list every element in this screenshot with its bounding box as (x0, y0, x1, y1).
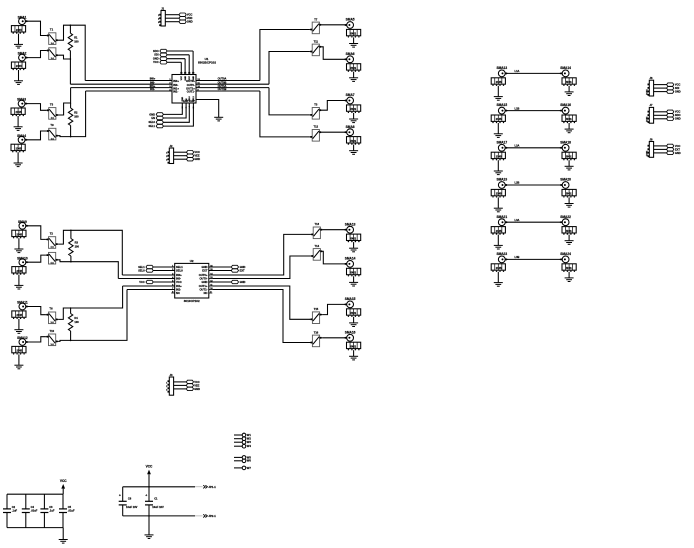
svg-text:NC: NC (204, 291, 208, 295)
connector SMA15 (491, 103, 507, 137)
net flag GND (J3) (186, 387, 200, 391)
wire T16 to SMA16 (322, 337, 346, 339)
svg-text:IN0+: IN0+ (176, 273, 182, 277)
svg-text:GND: GND (193, 76, 195, 81)
svg-text:CON4: CON4 (645, 150, 648, 156)
transformer T9 (46, 123, 58, 140)
wire T14 to SMA14 (323, 251, 347, 264)
wire J2 pin1 (174, 151, 187, 153)
ground (power input) (145, 534, 154, 536)
connector SMA16 (mid) (344, 330, 360, 360)
wire bus U2 IN0+ (122, 274, 174, 276)
connector SMA23 (491, 252, 507, 286)
svg-text:GND: GND (185, 76, 187, 81)
svg-text:R2: R2 (74, 111, 78, 115)
net flag VCC (U1 top) (153, 60, 181, 74)
net flag SDI (154, 53, 189, 75)
wire J2 pin2 (174, 155, 187, 157)
svg-text:EXT: EXT (240, 268, 245, 272)
connector SMA5 (344, 18, 360, 47)
svg-text:OUT0-: OUT0- (199, 276, 207, 280)
svg-text:W7: W7 (247, 466, 252, 470)
wire OUT1B riser to T12 (260, 91, 310, 137)
test point W3 (234, 440, 251, 444)
ground (cap bank) (59, 528, 68, 544)
svg-text:L1A: L1A (515, 69, 520, 73)
net flag VCC (J3) (186, 380, 200, 384)
wire T7 to SMA5 (322, 24, 347, 26)
svg-text:GND: GND (149, 112, 155, 116)
svg-text:T2: T2 (50, 232, 54, 236)
header J6 (645, 76, 653, 96)
wire bus IN1- to U1 (86, 90, 172, 92)
net flag GND (U1 top) (153, 57, 185, 75)
test point W7 (234, 466, 251, 470)
wire J7 pin1 (654, 111, 667, 113)
power VCC (cap bank) (60, 479, 67, 494)
svg-text:SMA14: SMA14 (345, 257, 356, 261)
svg-text:IN0-: IN0- (173, 83, 178, 87)
inductor L1B wire (505, 106, 562, 110)
capacitor C1 10uF 16V (145, 487, 164, 516)
connector SMA11 (12, 301, 28, 334)
net flag GND (U2 right 1) (209, 265, 246, 269)
wire J6 pin2 (654, 87, 667, 89)
header J3 (166, 373, 173, 395)
svg-text:VCC: VCC (146, 464, 153, 468)
transformer T5 (46, 102, 58, 119)
connector SMA22 (560, 215, 576, 245)
svg-text:SDO: SDO (675, 113, 681, 117)
svg-text:VEE: VEE (194, 383, 199, 387)
wire power bottom rail (123, 515, 195, 517)
svg-text:SMA8: SMA8 (346, 125, 355, 129)
junction R4 top (70, 307, 72, 309)
svg-text:T10: T10 (49, 329, 54, 333)
wire J3 pin2 (174, 384, 187, 386)
net flag GND (U2 right 2) (209, 280, 246, 284)
wire T4 out riser to U2 IN0- (58, 260, 118, 279)
net flag SEL1 (U1 bottom) (149, 103, 194, 128)
net flag VEE (J3) (186, 383, 199, 387)
svg-text:VCC: VCC (181, 76, 183, 81)
wire SMA1 to T1 (25, 21, 46, 35)
svg-text:T13: T13 (315, 222, 320, 226)
wire SMA12 to T10 (26, 337, 46, 342)
net flag SDO (J7) (667, 113, 681, 117)
svg-text:VDD: VDD (187, 16, 193, 20)
svg-text:T6: T6 (49, 306, 53, 310)
svg-text:T1: T1 (50, 28, 54, 32)
svg-text:JP1-1: JP1-1 (208, 485, 216, 489)
svg-text:OUT1A: OUT1A (218, 84, 227, 88)
svg-text:VEE: VEE (194, 154, 199, 158)
resistor R3 100 (69, 230, 80, 261)
net flag VCC (J7) (667, 110, 681, 114)
transformer T10 (46, 329, 58, 346)
svg-text:SMA24: SMA24 (560, 252, 571, 256)
svg-text:T14: T14 (315, 244, 320, 248)
svg-text:SEL1: SEL1 (193, 95, 195, 101)
wire T3 to SMA7 (322, 101, 347, 111)
wire bus IN1+ to U1 (71, 87, 172, 89)
svg-text:EN: EN (151, 116, 155, 120)
wire cap bank bottom rail (7, 527, 63, 529)
transformer T11 (310, 39, 322, 55)
wire bus OUT1B (196, 90, 260, 92)
header J7 (645, 103, 653, 123)
junction VCC rail (148, 486, 150, 488)
svg-text:W1: W1 (247, 433, 252, 437)
header J2 (166, 144, 173, 164)
svg-text:R3: R3 (75, 241, 79, 245)
svg-text:SEL0: SEL0 (176, 268, 183, 272)
svg-text:SMA16: SMA16 (345, 330, 356, 334)
svg-text:SMA21: SMA21 (496, 215, 507, 219)
svg-text:VCC: VCC (194, 380, 200, 384)
wire J3 pin3 (174, 388, 187, 390)
net flag GND (J7) (667, 117, 681, 121)
svg-text:OUT1-: OUT1- (187, 90, 195, 94)
svg-text:SMA17: SMA17 (496, 140, 507, 144)
svg-text:SEL1: SEL1 (138, 265, 145, 269)
svg-text:NC: NC (176, 291, 180, 295)
svg-text:.01uF: .01uF (68, 509, 75, 513)
wire U2 OUT1+ riser to T15 (212, 286, 310, 319)
svg-text:C4: C4 (31, 505, 35, 509)
svg-text:GND: GND (675, 117, 681, 121)
wire OUT0B riser to T11 (269, 52, 310, 85)
svg-text:SEL0: SEL0 (149, 120, 156, 124)
svg-text:T12: T12 (314, 125, 319, 129)
connector SMA21 (491, 215, 507, 249)
svg-text:GND: GND (194, 157, 200, 161)
svg-text:U2: U2 (190, 259, 194, 263)
wire C1 to ground (148, 516, 150, 535)
svg-text:SMA11: SMA11 (17, 301, 28, 305)
junction R4 bottom (70, 340, 72, 342)
header J1 (158, 6, 165, 26)
svg-text:T16: T16 (314, 330, 319, 334)
svg-text:VCC: VCC (189, 76, 191, 81)
connector SMA9 (12, 220, 28, 253)
svg-text:IN0-: IN0- (150, 80, 155, 84)
svg-text:SMA7: SMA7 (346, 93, 355, 97)
svg-text:SMA2: SMA2 (18, 52, 27, 56)
svg-text:L3A: L3A (515, 218, 520, 222)
svg-text:GND: GND (675, 90, 681, 94)
svg-text:.1uF: .1uF (12, 509, 18, 513)
svg-text:EXT: EXT (202, 268, 208, 272)
svg-text:W6: W6 (247, 459, 252, 463)
transformer T7 (310, 17, 322, 33)
connector SMA1 (11, 15, 27, 48)
connector SMA12 (12, 336, 28, 369)
wire SMA10 to T4 (26, 255, 46, 262)
transformer T12 (310, 125, 322, 141)
wire J7 pin2 (654, 114, 667, 116)
svg-text:C3: C3 (49, 505, 53, 509)
transformer T1 (46, 28, 58, 45)
wire SMA2 to T2 (25, 51, 46, 58)
svg-text:C2: C2 (12, 505, 16, 509)
svg-text:OUT0-: OUT0- (187, 83, 195, 87)
connector SMA13 (mid) (344, 222, 360, 252)
resistor R4 100 (68, 308, 79, 340)
svg-text:W5: W5 (247, 455, 252, 459)
svg-text:GND: GND (240, 265, 246, 269)
svg-text:SMA15: SMA15 (496, 103, 507, 107)
connector SMA14 (mid) (344, 257, 360, 287)
op-amp U1 8302BCP102 body (172, 57, 216, 103)
wire T15 to SMA15 (322, 304, 346, 314)
svg-text:L2B: L2B (515, 181, 520, 185)
svg-text:GND: GND (202, 265, 208, 269)
wire bus IN0- to U1 (70, 83, 172, 85)
net flag GND (J8) (667, 151, 681, 155)
svg-text:IN1-: IN1- (176, 287, 181, 291)
svg-text:CON4: CON4 (645, 89, 648, 95)
connector SMA7 (344, 93, 360, 123)
wire J6 pin1 (654, 84, 667, 86)
svg-text:3010CP102: 3010CP102 (184, 299, 200, 303)
net flag SEL1 (U2) (138, 265, 175, 269)
wire U2 OUT0+ riser to T13 (212, 234, 310, 275)
svg-text:W2: W2 (247, 437, 252, 441)
svg-text:IN1+: IN1+ (173, 86, 179, 90)
svg-text:W4: W4 (247, 444, 252, 448)
transformer T13 (311, 222, 323, 238)
header J8 (645, 137, 653, 157)
svg-text:VCC: VCC (176, 280, 182, 284)
U2 pin stubs (171, 266, 175, 268)
svg-text:GND: GND (202, 280, 208, 284)
svg-text:100: 100 (74, 114, 79, 118)
svg-text:CON4: CON4 (645, 116, 648, 122)
ground (U1 EXT CAP) (214, 116, 223, 118)
svg-text:OUT1+: OUT1+ (199, 284, 208, 288)
wire T12 to SMA8 (322, 131, 347, 133)
net flag EXT (J8) (667, 147, 681, 151)
wire T2 out riser to U2 IN0+ (58, 230, 122, 275)
svg-text:EN: EN (186, 98, 188, 101)
net flag VDD (J1) (179, 16, 193, 20)
svg-text:SMA13: SMA13 (345, 222, 356, 226)
wire bus OUT0B (196, 83, 269, 85)
svg-text:SMA22: SMA22 (560, 215, 571, 219)
transformer T6 (46, 306, 58, 324)
junction R1 bottom (70, 58, 72, 60)
svg-text:VCC: VCC (139, 280, 145, 284)
svg-text:VCC: VCC (194, 150, 200, 154)
wire OUT1A riser to T3 (269, 88, 310, 115)
svg-text:SEL1: SEL1 (149, 124, 156, 128)
svg-text:SMA4: SMA4 (17, 134, 26, 138)
wire cap bank top rail (7, 493, 63, 495)
transformer T4 (lower winding) (46, 252, 58, 264)
wire T5 out to node IN1+ riser (59, 88, 71, 115)
svg-text:OUT1+: OUT1+ (186, 86, 195, 90)
junction R3 top (70, 230, 72, 232)
connector SMA10 (12, 256, 28, 289)
capacitor C5 .01uF (59, 494, 75, 527)
svg-text:.1uF: .1uF (49, 509, 55, 513)
svg-text:OUT1-: OUT1- (199, 287, 207, 291)
connector SMA8 (344, 125, 360, 155)
test point W1 (234, 433, 251, 437)
wire T9 out to node IN1- riser (59, 91, 86, 137)
power VCC (input) (146, 464, 153, 486)
svg-text:GND: GND (182, 96, 184, 101)
wire J7 pin3 (654, 118, 667, 120)
wire J2 pin3 (174, 158, 187, 160)
connector SMA2 (11, 52, 27, 85)
svg-text:OUT0B: OUT0B (218, 80, 227, 84)
svg-text:GND: GND (675, 151, 681, 155)
svg-text:T9: T9 (50, 123, 54, 127)
svg-text:SMA15: SMA15 (345, 297, 356, 301)
svg-text:SMA18: SMA18 (560, 140, 571, 144)
svg-text:EXT: EXT (675, 147, 680, 151)
wire J8 pin1 (654, 145, 667, 147)
net flag VCC (U2) (139, 280, 174, 284)
svg-text:C8: C8 (128, 496, 132, 500)
wire SMA11 to T6 (26, 307, 46, 315)
svg-text:JP2-1: JP2-1 (208, 514, 216, 518)
svg-text:SMA19: SMA19 (496, 178, 507, 182)
svg-text:VCC: VCC (675, 144, 681, 148)
inductor L2A wire (505, 144, 562, 148)
junction R1 top (70, 24, 72, 26)
svg-text:W3: W3 (247, 440, 252, 444)
svg-text:SDI: SDI (154, 53, 159, 57)
svg-text:+: + (119, 493, 121, 497)
wire bus OUT1A (196, 87, 269, 89)
net flag SEL0 (U2) (138, 268, 175, 272)
svg-text:C5: C5 (68, 505, 72, 509)
wire bus IN0+ to U1 (85, 80, 172, 82)
wire power top rail (123, 486, 195, 488)
svg-text:OUT0+: OUT0+ (199, 273, 208, 277)
net flag EXT (U2 right) (209, 268, 245, 272)
transformer T16 (310, 330, 322, 346)
svg-text:SMA20: SMA20 (560, 178, 571, 182)
test point W6 (234, 459, 251, 463)
svg-text:L2A: L2A (515, 144, 520, 148)
svg-text:T5: T5 (50, 102, 54, 106)
wire U1 EXT CAP (196, 100, 219, 118)
inductor L1A wire (505, 69, 562, 73)
svg-text:SEL0: SEL0 (138, 268, 145, 272)
net flag SEL0 (U1 bottom) (149, 103, 190, 124)
net flag VCC (J2) (187, 150, 201, 154)
junction R2 bottom (70, 136, 72, 138)
svg-text:OUT1B: OUT1B (218, 87, 227, 91)
junction R3 bottom (70, 261, 72, 263)
net flag VCC (J1) (179, 13, 193, 17)
svg-text:SMA10: SMA10 (17, 256, 28, 260)
wire T1 out to node OUT0+ riser (59, 25, 86, 80)
svg-text:SDO: SDO (153, 49, 159, 53)
wire J3 pin1 (174, 381, 187, 383)
wire J1 pin1 (165, 14, 179, 16)
capacitor C8 10uF 16V (119, 487, 138, 516)
connector SMA16 (560, 103, 576, 133)
wire OUT0A riser to T7 (260, 30, 310, 81)
wire J6 pin3 (654, 91, 667, 93)
svg-text:SMA3: SMA3 (17, 98, 26, 102)
test point W2 (234, 437, 251, 441)
net flag SDI (J6) (667, 86, 680, 90)
svg-text:100: 100 (75, 245, 80, 249)
transformer T2 (46, 232, 58, 249)
net flag GND (J2) (187, 157, 201, 161)
svg-text:.01uF: .01uF (31, 509, 38, 513)
svg-text:C1: C1 (154, 496, 158, 500)
connector SMA13 (491, 66, 507, 100)
connector SMA3 (11, 98, 27, 131)
svg-text:10uF 16V: 10uF 16V (152, 505, 164, 509)
svg-text:R1: R1 (74, 36, 78, 40)
test point W5 (234, 455, 251, 459)
svg-text:IN1-: IN1- (173, 90, 178, 94)
svg-text:8302BCP102: 8302BCP102 (198, 61, 216, 65)
test point W4 (234, 444, 251, 448)
wire bus U2 IN1+ (123, 285, 175, 287)
wire J1 pin2 (165, 17, 179, 19)
inductor L3B wire (505, 255, 562, 259)
svg-text:SMA23: SMA23 (496, 252, 507, 256)
connector SMA15 (mid) (344, 297, 360, 327)
svg-text:SMA12: SMA12 (17, 336, 28, 340)
net flag GND (U1 bottom) (149, 103, 182, 116)
svg-text:IN0+: IN0+ (150, 77, 156, 81)
inductor L3A wire (505, 218, 562, 222)
svg-text:IN0-: IN0- (176, 276, 181, 280)
connector SMA18 (560, 140, 576, 170)
capacitor C4 .01uF (22, 494, 38, 527)
connector SMA4 (11, 134, 27, 167)
transformer T3 (310, 103, 322, 119)
op-amp U2 3010CP102 body (175, 259, 209, 303)
svg-text:SDI: SDI (675, 86, 680, 90)
transformer T14 (311, 244, 323, 260)
wire SMA3 to T5 (25, 104, 46, 111)
svg-text:SEL0: SEL0 (189, 95, 191, 101)
svg-text:VCC: VCC (187, 13, 193, 17)
svg-text:L3B: L3B (515, 255, 520, 259)
wire bus OUT0A (196, 80, 260, 82)
wire bus U2 IN0- (118, 278, 174, 280)
wire SMA9 to T2 (26, 226, 46, 240)
transformer T15 (310, 307, 322, 323)
junction bottom rail (148, 515, 150, 517)
wire bus U2 IN1- (127, 289, 175, 291)
net flag GND (J6) (667, 90, 681, 94)
inductor L2B wire (505, 181, 562, 185)
net flag VCC (J6) (667, 83, 681, 87)
net flag EN (U1 bottom) (151, 103, 186, 120)
connector SMA17 (491, 140, 507, 174)
svg-text:100: 100 (74, 40, 79, 44)
wire T2 out to node OUT0- riser (59, 55, 71, 84)
svg-text:L1B: L1B (515, 106, 520, 110)
resistor R2 100 (68, 103, 79, 137)
wire J8 pin3 (654, 152, 667, 154)
net flag VCC (J8) (667, 144, 681, 148)
wire T13 to SMA13 (323, 229, 347, 231)
svg-text:GND: GND (240, 280, 246, 284)
